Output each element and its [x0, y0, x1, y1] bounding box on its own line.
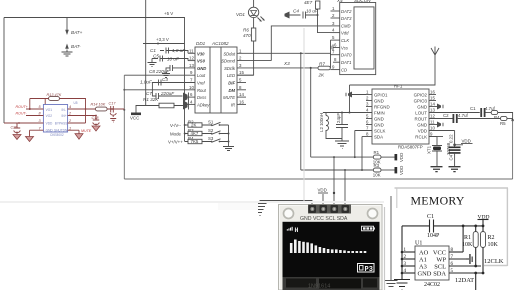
svg-text:DAT0: DAT0 — [341, 53, 352, 58]
svg-text:U5: U5 — [74, 101, 78, 105]
svg-text:R14 10K: R14 10K — [91, 103, 106, 107]
ground (under C5) — [148, 59, 157, 67]
resistor R1 10K (memory) — [473, 232, 478, 248]
svg-text:V+/V++: V+/V++ — [168, 140, 183, 145]
svg-text:L2 100nH: L2 100nH — [319, 113, 324, 132]
resistor R4 (audio L) — [491, 110, 498, 114]
svg-text:14: 14 — [239, 92, 244, 97]
svg-text:IN-: IN- — [62, 108, 66, 112]
svg-text:GND: GND — [374, 116, 384, 121]
svg-text:VDD: VDD — [462, 139, 471, 144]
wire audio bus right edge — [512, 120, 514, 179]
svg-text:LOUT: LOUT — [415, 110, 427, 115]
DD1 right pin stubs — [237, 53, 331, 104]
svg-text:RCLK: RCLK — [415, 134, 427, 139]
ground (memory) — [394, 280, 410, 290]
svg-text:S3: S3 — [208, 136, 214, 141]
OLED battery icon — [362, 226, 375, 231]
svg-text:Mode: Mode — [170, 132, 182, 137]
OLED module photo — [279, 205, 383, 290]
svg-text:SCL: SCL — [434, 264, 446, 271]
svg-text:LED: LED — [227, 73, 235, 78]
svg-text:VDD: VDD — [46, 121, 53, 125]
OLED signal icon + H — [287, 227, 293, 231]
svg-text:MUTE: MUTE — [223, 95, 235, 100]
wire antenna drop — [349, 85, 351, 113]
resistor R2 10K (memory) — [481, 232, 486, 248]
svg-text:BYPASS: BYPASS — [55, 121, 68, 125]
svg-text:ROUT-: ROUT- — [16, 112, 28, 116]
svg-text:1,0uF: 1,0uF — [140, 80, 153, 85]
svg-text:VDD: VDD — [418, 128, 427, 133]
svg-text:SHUTDN: SHUTDN — [54, 128, 68, 132]
grey faint band — [0, 201, 384, 203]
svg-text:1: 1 — [69, 126, 71, 130]
svg-text:R1: R1 — [464, 235, 471, 241]
svg-text:BAT+: BAT+ — [71, 30, 83, 35]
ground (C8) — [162, 74, 170, 78]
svg-text:470: 470 — [243, 33, 251, 38]
ground (XT1) — [431, 166, 443, 172]
svg-text:WP: WP — [436, 257, 446, 264]
node VDD (RF) — [453, 144, 456, 147]
svg-text:0.22: 0.22 — [449, 134, 454, 143]
svg-text:VCC: VCC — [130, 116, 139, 121]
ground (pin14) — [437, 104, 441, 110]
svg-text:GND: GND — [46, 128, 54, 132]
svg-text:Vdd: Vdd — [341, 30, 349, 35]
svg-text:IR: IR — [231, 102, 235, 107]
X4 pin stubs — [331, 11, 340, 70]
svg-text:P3: P3 — [365, 266, 373, 274]
svg-text:GND: GND — [374, 122, 384, 127]
ground (pin1 GPIO1) — [348, 92, 352, 98]
svg-text:C1: C1 — [470, 106, 476, 111]
svg-text:15: 15 — [239, 70, 244, 75]
wire I2C data line — [301, 169, 374, 171]
svg-text:SDA: SDA — [374, 134, 383, 139]
battery BAT- symbol — [65, 44, 69, 49]
svg-text:VCC: VCC — [433, 250, 446, 257]
svg-text:DAT1: DAT1 — [341, 60, 351, 65]
wire RF SCLK drop — [354, 131, 356, 158]
svg-text:MUTE: MUTE — [81, 129, 92, 133]
svg-text:10 uF: 10 uF — [167, 57, 180, 62]
svg-text:10K: 10K — [488, 242, 499, 248]
svg-text:DM: DM — [228, 88, 235, 93]
OLED bottom ribbon — [283, 277, 380, 290]
svg-text:4: 4 — [69, 105, 71, 109]
svg-text:Lout: Lout — [197, 73, 206, 78]
svg-text:R1: R1 — [374, 150, 380, 155]
svg-text:R1 32K: R1 32K — [143, 97, 159, 102]
svg-text:GND: GND — [417, 104, 427, 109]
svg-text:A1: A1 — [419, 257, 427, 264]
ground (OLED) — [254, 204, 267, 216]
svg-text:GPIO2: GPIO2 — [414, 92, 428, 97]
svg-text:11: 11 — [430, 120, 435, 125]
wire SDcmd riser — [271, 26, 330, 61]
svg-text:13: 13 — [189, 63, 194, 68]
svg-text:24pF: 24pF — [336, 113, 341, 123]
U1 right pins — [449, 252, 483, 273]
svg-text:C4: C4 — [449, 154, 454, 160]
svg-text:VS0: VS0 — [197, 59, 206, 64]
svg-text:SDclk: SDclk — [224, 66, 236, 71]
svg-text:10: 10 — [189, 85, 194, 90]
svg-text:CMD: CMD — [341, 24, 351, 29]
ground (C4 RF) — [449, 166, 461, 172]
X4 pin numbers — [332, 6, 337, 70]
svg-text:C17: C17 — [109, 101, 117, 105]
wire left audio bus — [123, 75, 125, 179]
ground (shutdn wire) — [29, 130, 31, 136]
svg-text:DD1: DD1 — [196, 41, 206, 46]
ground (C20) — [13, 135, 21, 140]
svg-text:104P: 104P — [427, 233, 440, 239]
svg-text:2K: 2K — [191, 122, 196, 127]
crystal XT1 32768 — [432, 137, 442, 167]
svg-text:VD1: VD1 — [236, 12, 245, 17]
OLED screen — [283, 222, 380, 277]
svg-text:4.7uf: 4.7uf — [458, 113, 469, 118]
svg-text:7K5: 7K5 — [191, 139, 199, 144]
wire feedback vertical — [85, 109, 87, 123]
svg-text:SDdat: SDdat — [223, 51, 235, 56]
svg-text:GND VCC SCL SDA: GND VCC SCL SDA — [300, 216, 348, 222]
svg-text:V30: V30 — [197, 51, 205, 56]
svg-text:BAT-: BAT- — [71, 44, 81, 49]
svg-text:RDA5807FP: RDA5807FP — [398, 145, 423, 150]
resistor R5 (audio R) — [501, 116, 508, 120]
wire riser to I2C data — [300, 53, 302, 170]
svg-text:R4: R4 — [494, 115, 500, 120]
svg-text:C1: C1 — [427, 214, 434, 220]
svg-text:XT1: XT1 — [427, 145, 432, 154]
ground (L2/C3) — [335, 139, 349, 149]
svg-text:R6: R6 — [243, 28, 249, 33]
svg-text:V-/V--: V-/V-- — [170, 123, 182, 128]
svg-text:12CLK: 12CLK — [484, 258, 504, 265]
ground (C18) — [92, 126, 100, 131]
U5 left pin stubs — [4, 109, 43, 130]
ground (buttons) — [223, 146, 234, 151]
wire riser to I2C clock — [310, 68, 312, 157]
X4 pin names — [341, 9, 352, 73]
RF1 right pin numbers — [430, 90, 435, 137]
svg-text:12: 12 — [430, 114, 435, 119]
wire OLED SCL riser — [333, 157, 335, 205]
svg-text:R5: R5 — [500, 121, 506, 126]
resistor pullup R9 — [373, 168, 381, 172]
svg-text:X3: X3 — [283, 61, 290, 66]
wire left battery rail down — [3, 18, 5, 124]
OLED P3 box — [358, 264, 375, 273]
svg-text:4E7: 4E7 — [304, 0, 313, 5]
svg-text:+5 V: +5 V — [164, 11, 173, 16]
OLED header pads — [308, 205, 351, 214]
DD1 right pin numbers — [239, 48, 244, 104]
DD1 right pin names — [221, 51, 236, 107]
svg-text:DAT2: DAT2 — [341, 9, 352, 14]
svg-text:1,0 uF: 1,0 uF — [172, 48, 186, 53]
svg-text:Rout: Rout — [197, 88, 207, 93]
wire I2C clock line — [311, 156, 374, 158]
grey window border (memory bottom partial) — [484, 265, 507, 267]
svg-text:C7: C7 — [146, 91, 152, 96]
svg-text:VDD: VDD — [399, 153, 404, 162]
OLED hole left — [284, 209, 294, 219]
svg-text:11: 11 — [189, 48, 194, 53]
capacitor (WP) — [466, 258, 469, 260]
svg-text:GPIO3: GPIO3 — [414, 98, 428, 103]
OLED spectrum bars — [290, 240, 366, 254]
svg-text:24C02: 24C02 — [424, 282, 440, 288]
svg-text:VDD: VDD — [399, 166, 404, 175]
wire switches common — [228, 125, 230, 146]
svg-text:10K: 10K — [373, 172, 381, 177]
svg-text:S2: S2 — [208, 128, 214, 133]
U1 left bus — [401, 226, 403, 280]
RF1 left pin stubs — [323, 95, 372, 137]
wire OLED SDA riser — [344, 170, 346, 205]
svg-text:12DAT: 12DAT — [455, 277, 474, 284]
grey window border (middle vertical) — [303, 28, 305, 202]
svg-text:C3: C3 — [162, 77, 168, 82]
OLED hole right — [368, 209, 378, 219]
svg-text:15: 15 — [430, 96, 435, 101]
svg-text:C4: C4 — [293, 9, 299, 14]
capacitor (blob at DVss) — [183, 93, 188, 102]
svg-text:GND: GND — [374, 98, 384, 103]
svg-text:A3: A3 — [419, 264, 427, 271]
svg-text:1N91614: 1N91614 — [308, 284, 330, 290]
svg-text:R3: R3 — [374, 163, 380, 168]
ground (Vss small) — [331, 45, 333, 51]
svg-text:C5: C5 — [153, 54, 159, 59]
grey window border (memory left) — [396, 188, 398, 208]
svg-text:GND: GND — [197, 66, 206, 71]
wire top-left +5V rail — [4, 18, 185, 142]
svg-text:AO: AO — [419, 250, 429, 257]
amplifier module U5 (pink section) — [4, 93, 124, 142]
svg-text:SDA: SDA — [433, 271, 446, 278]
resistor pullup R8 — [373, 155, 381, 159]
capacitor (blob at ADkey) — [183, 101, 188, 110]
svg-text:12: 12 — [189, 56, 194, 61]
antenna — [431, 47, 439, 59]
svg-text:R2: R2 — [488, 235, 495, 241]
wire bottom bus — [124, 178, 512, 180]
svg-text:GPIO1: GPIO1 — [374, 92, 388, 97]
wire SDdat to DAT0 — [330, 53, 332, 54]
svg-text:Vss: Vss — [341, 45, 349, 50]
grey window border (memory top) — [395, 187, 509, 189]
svg-text:+3,3 V: +3,3 V — [156, 37, 169, 42]
wire vertical feed x=146 — [145, 0, 147, 106]
U5 right pin stubs — [68, 109, 96, 130]
svg-text:IN+: IN+ — [62, 114, 67, 118]
grey window border (memory right) — [506, 188, 508, 266]
grey window border (OLED right) — [384, 207, 386, 290]
svg-text:DIF: DIF — [228, 81, 235, 86]
svg-text:SCLK: SCLK — [374, 128, 386, 133]
svg-text:16: 16 — [430, 90, 435, 95]
svg-text:220uF: 220uF — [160, 91, 175, 96]
wire right of OLED down — [390, 196, 392, 280]
wire OLED GND — [260, 201, 312, 206]
svg-text:C2: C2 — [443, 113, 449, 118]
ground (right of OLED) — [385, 281, 398, 287]
svg-text:Dvss: Dvss — [197, 95, 207, 100]
svg-text:GND: GND — [418, 271, 432, 278]
svg-text:H: H — [295, 227, 299, 234]
RF1 left pin numbers — [366, 90, 369, 137]
svg-text:14: 14 — [430, 102, 435, 107]
wire RF SDA drop — [361, 137, 363, 171]
DD1 left pin numbers — [189, 48, 194, 104]
DD1 left pin names — [197, 51, 206, 71]
ground (pin11) — [437, 122, 441, 128]
op-amp U5 box — [43, 105, 67, 133]
svg-text:R7: R7 — [319, 61, 325, 66]
capacitor C4 10uF (top) — [285, 12, 290, 19]
svg-text:SDcmd: SDcmd — [221, 59, 235, 64]
svg-text:16: 16 — [239, 99, 244, 104]
svg-text:RFGND: RFGND — [374, 104, 390, 109]
svg-text:MEMORY: MEMORY — [411, 194, 465, 208]
svg-text:Vref: Vref — [197, 81, 205, 86]
svg-text:DAT3: DAT3 — [341, 16, 352, 21]
svg-text:10: 10 — [430, 126, 435, 131]
svg-text:RF1: RF1 — [394, 84, 403, 89]
svg-text:VDD: VDD — [318, 188, 327, 193]
svg-text:C1: C1 — [150, 48, 156, 53]
RF1 left pin names — [374, 92, 390, 139]
svg-text:GND: GND — [417, 122, 427, 127]
RF1 right pin stubs — [429, 95, 480, 137]
svg-text:VO1: VO1 — [46, 108, 53, 112]
RF1 right pin names — [414, 92, 428, 139]
svg-text:S1: S1 — [208, 120, 214, 125]
svg-text:2K: 2K — [318, 73, 326, 78]
svg-text:13: 13 — [430, 108, 435, 113]
battery BAT+ arrow — [66, 18, 68, 32]
svg-text:ROUT+: ROUT+ — [16, 105, 28, 109]
svg-text:VO2: VO2 — [46, 114, 53, 118]
svg-text:CD: CD — [341, 67, 347, 72]
ground (pin1 shutdn) — [78, 130, 80, 134]
svg-text:CLK: CLK — [341, 38, 349, 43]
svg-text:ADkey: ADkey — [196, 102, 210, 107]
svg-text:FMIN: FMIN — [374, 110, 385, 115]
wire OLED VCC + VDD label — [322, 194, 324, 205]
svg-text:CKE8002: CKE8002 — [50, 133, 64, 137]
VCC symbol — [136, 106, 143, 113]
svg-text:C18: C18 — [92, 116, 100, 120]
svg-text:ROUT: ROUT — [415, 116, 428, 121]
capacitor C5 10uF — [152, 56, 188, 62]
wire ADkey junction — [184, 105, 186, 107]
svg-text:AC1082: AC1082 — [211, 41, 229, 46]
DD1 left pin stubs — [124, 53, 195, 104]
